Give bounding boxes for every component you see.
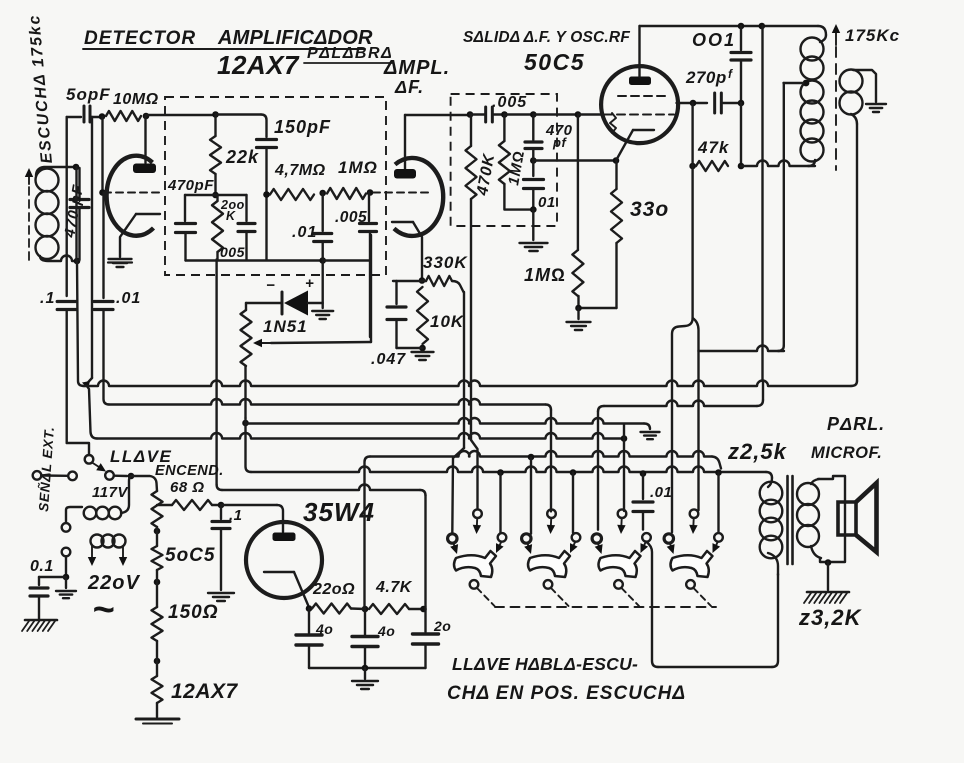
- svg-text:PΔRL.: PΔRL.: [827, 414, 885, 434]
- svg-text:33o: 33o: [630, 198, 669, 221]
- svg-text:4o: 4o: [377, 623, 395, 639]
- svg-text:47k: 47k: [697, 138, 730, 157]
- svg-text:5opF: 5opF: [66, 85, 111, 104]
- svg-text:.005: .005: [492, 94, 527, 111]
- svg-text:4o: 4o: [315, 621, 333, 637]
- svg-text:5oC5: 5oC5: [165, 545, 215, 566]
- svg-text:.01: .01: [650, 484, 672, 501]
- svg-text:.01: .01: [292, 224, 317, 241]
- svg-text:PΔLΔBRΔ: PΔLΔBRΔ: [307, 45, 393, 62]
- svg-text:pf: pf: [552, 135, 567, 150]
- svg-text:330K: 330K: [423, 253, 468, 272]
- svg-text:150pF: 150pF: [274, 117, 331, 137]
- svg-text:150Ω: 150Ω: [168, 602, 219, 623]
- svg-text:+: +: [305, 275, 314, 292]
- svg-text:470pF: 470pF: [167, 177, 214, 194]
- svg-text:.005: .005: [335, 209, 367, 226]
- svg-text:DETECTOR: DETECTOR: [84, 28, 196, 49]
- svg-text:0.1: 0.1: [30, 558, 54, 575]
- svg-text:68 Ω: 68 Ω: [170, 479, 205, 496]
- svg-text:−: −: [266, 277, 275, 294]
- svg-text:ENCEND.: ENCEND.: [155, 463, 224, 479]
- svg-text:LLΔVE HΔBLΔ-ESCU-: LLΔVE HΔBLΔ-ESCU-: [452, 654, 638, 674]
- svg-text:270p: 270p: [685, 68, 727, 87]
- svg-text:10K: 10K: [430, 312, 465, 331]
- svg-text:22oΩ: 22oΩ: [312, 581, 355, 598]
- svg-text:f: f: [728, 67, 733, 81]
- svg-text:SΔLIDΔ Δ.F. Y OSC.RF: SΔLIDΔ Δ.F. Y OSC.RF: [463, 29, 630, 46]
- svg-text:4,7MΩ: 4,7MΩ: [274, 162, 326, 179]
- svg-text:22k: 22k: [225, 147, 259, 167]
- svg-text:OO1: OO1: [692, 30, 736, 50]
- svg-text:MICROF.: MICROF.: [811, 444, 882, 462]
- svg-text:ΔMPL.: ΔMPL.: [383, 57, 450, 79]
- svg-text:ΔF.: ΔF.: [394, 77, 424, 97]
- svg-text:10MΩ: 10MΩ: [113, 91, 159, 108]
- svg-text:50C5: 50C5: [524, 49, 585, 75]
- svg-text:117V: 117V: [92, 484, 129, 501]
- svg-text:4.7K: 4.7K: [375, 579, 413, 596]
- svg-text:2o: 2o: [433, 618, 451, 634]
- svg-text:~: ~: [92, 589, 114, 631]
- svg-text:12AX7: 12AX7: [217, 50, 300, 80]
- svg-text:.01: .01: [116, 290, 141, 307]
- svg-text:z3,2K: z3,2K: [798, 605, 863, 630]
- svg-text:1MΩ: 1MΩ: [524, 265, 566, 285]
- svg-text:z2,5k: z2,5k: [727, 439, 788, 464]
- svg-text:.1: .1: [229, 507, 243, 524]
- svg-text:01: 01: [538, 194, 556, 211]
- svg-text:.1: .1: [40, 290, 55, 307]
- svg-text:.047: .047: [371, 351, 406, 368]
- svg-text:K: K: [226, 209, 236, 223]
- svg-text:12AX7: 12AX7: [171, 680, 239, 703]
- svg-text:175Kc: 175Kc: [845, 26, 900, 45]
- svg-text:1MΩ: 1MΩ: [338, 158, 378, 177]
- svg-text:CHΔ EN POS. ESCUCHΔ: CHΔ EN POS. ESCUCHΔ: [447, 683, 686, 704]
- svg-text:005: 005: [220, 244, 245, 260]
- svg-text:1N51: 1N51: [263, 317, 308, 336]
